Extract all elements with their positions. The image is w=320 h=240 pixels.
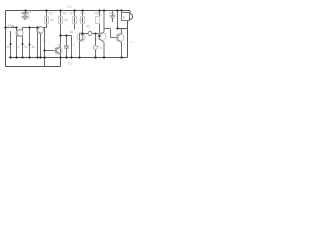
svg-text:h: h <box>100 13 102 17</box>
svg-text:1.1: 1.1 <box>67 5 72 9</box>
svg-text:4u: 4u <box>58 43 62 47</box>
svg-text:1k: 1k <box>43 39 47 43</box>
svg-text:R2: R2 <box>63 12 67 16</box>
svg-text:+: + <box>114 13 116 17</box>
svg-text:R4: R4 <box>81 12 85 16</box>
svg-text:sw: sw <box>8 24 13 28</box>
svg-text:+: + <box>130 41 132 45</box>
svg-text:1k: 1k <box>50 18 54 22</box>
svg-text:Q: Q <box>82 39 85 43</box>
svg-text:1k: 1k <box>78 18 82 22</box>
svg-text:2: 2 <box>18 45 20 49</box>
svg-text:4u: 4u <box>70 30 74 34</box>
svg-text:2: 2 <box>28 17 30 21</box>
svg-text:1k: 1k <box>24 45 28 49</box>
svg-text:1k: 1k <box>32 45 36 49</box>
svg-text:1k: 1k <box>64 18 68 22</box>
svg-text:4u: 4u <box>87 25 91 29</box>
svg-text:1k: 1k <box>7 45 11 49</box>
svg-text:K: K <box>123 15 126 20</box>
svg-text:b: b <box>100 46 102 50</box>
svg-text:+: + <box>98 45 100 49</box>
svg-text:R1: R1 <box>49 12 53 16</box>
svg-text:R5: R5 <box>95 12 99 16</box>
svg-text:0.7: 0.7 <box>68 62 73 66</box>
svg-text:R3: R3 <box>70 12 74 16</box>
svg-text:1: 1 <box>73 43 75 47</box>
